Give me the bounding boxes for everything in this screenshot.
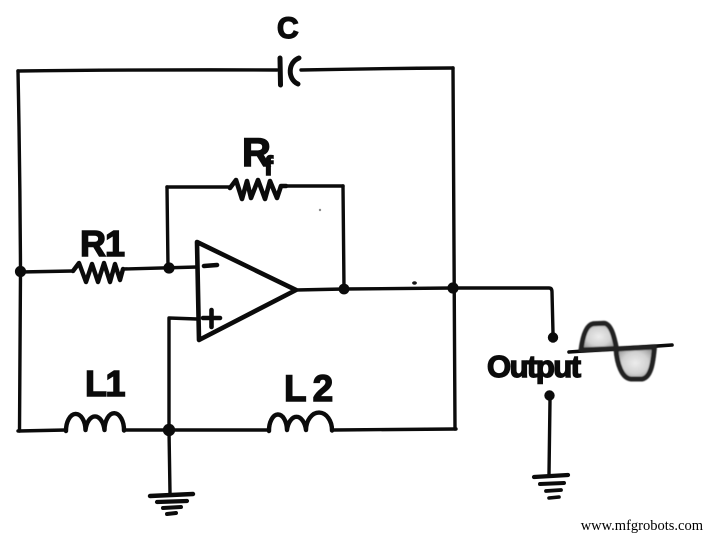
svg-text:R1: R1 [80, 223, 125, 264]
svg-text:f: f [264, 151, 274, 181]
svg-text:C: C [277, 12, 299, 45]
svg-text:L2: L2 [284, 368, 339, 409]
svg-text:Output: Output [487, 349, 581, 384]
svg-text:www.mfgrobots.com: www.mfgrobots.com [581, 518, 704, 534]
svg-text:L1: L1 [85, 363, 125, 404]
